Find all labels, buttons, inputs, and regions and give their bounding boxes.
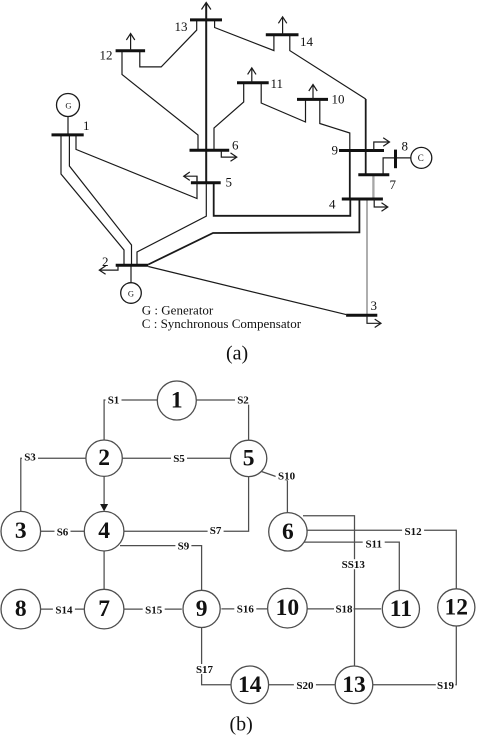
edge S5 (2-5) bbox=[122, 457, 230, 459]
bus 11 bbox=[237, 81, 269, 84]
load arrow bus 9 (right) bbox=[374, 138, 390, 151]
svg-text:4: 4 bbox=[329, 197, 336, 212]
edge S7 (4-5) bbox=[124, 477, 249, 532]
wire line 4-7 bbox=[372, 175, 374, 199]
svg-text:S5: S5 bbox=[173, 453, 185, 465]
svg-text:3: 3 bbox=[371, 298, 378, 313]
wire line 7-8 bbox=[383, 158, 411, 175]
bus 1 bbox=[52, 133, 84, 136]
edge S15 (7-9) bbox=[124, 608, 182, 610]
svg-text:S19: S19 bbox=[437, 680, 455, 692]
load arrows bbox=[99, 3, 389, 328]
wire line 6-13 and 5-6 vertical bbox=[205, 20, 207, 183]
svg-text:2: 2 bbox=[102, 254, 109, 269]
node 14 bbox=[231, 666, 269, 704]
edge S20 (14-13) bbox=[269, 684, 336, 686]
wire line 1-2 circuit A bbox=[61, 135, 124, 265]
svg-text:S16: S16 bbox=[237, 604, 255, 616]
edge S12 (6-12) bbox=[307, 530, 456, 589]
svg-text:14: 14 bbox=[238, 672, 262, 698]
wire line 2-3 bbox=[148, 267, 346, 315]
generator G2 stem bbox=[130, 265, 132, 283]
svg-text:7: 7 bbox=[98, 596, 110, 622]
bus 7 bbox=[358, 173, 389, 176]
edge S6 (3-4) bbox=[41, 530, 85, 532]
load arrow bus 13 (up) bbox=[202, 3, 211, 20]
svg-text:S15: S15 bbox=[145, 605, 163, 617]
svg-text:13: 13 bbox=[175, 19, 188, 34]
arrowhead of edge 2-4 bbox=[100, 504, 108, 511]
svg-text:S2: S2 bbox=[237, 395, 249, 407]
bus 12 bbox=[116, 49, 146, 52]
bus 10 bbox=[297, 98, 328, 101]
bus 4 bbox=[342, 198, 383, 201]
svg-text:4: 4 bbox=[98, 518, 110, 544]
svg-text:S1: S1 bbox=[108, 395, 120, 407]
svg-text:10: 10 bbox=[332, 92, 345, 107]
svg-text:1: 1 bbox=[171, 388, 183, 414]
compensator C circle bbox=[411, 147, 432, 168]
node 4 bbox=[84, 511, 124, 551]
node 2 bbox=[86, 440, 122, 476]
wire line 6-11 bbox=[214, 83, 244, 151]
node 11 bbox=[382, 590, 419, 627]
svg-text:7: 7 bbox=[390, 177, 397, 192]
svg-text:S11: S11 bbox=[365, 539, 382, 551]
load arrow bus 6 (right) bbox=[221, 150, 237, 161]
node 8 bbox=[1, 589, 41, 629]
svg-text:C : Synchronous Compensator: C : Synchronous Compensator bbox=[142, 316, 302, 331]
bus 5 bbox=[191, 181, 221, 184]
edge S3 (2-3) bbox=[21, 458, 86, 511]
wire line 9-14 bbox=[365, 99, 367, 151]
load arrow bus 2 (left) bbox=[99, 265, 118, 274]
svg-text:9: 9 bbox=[332, 143, 339, 158]
load arrow bus 4 (right) bbox=[374, 199, 388, 211]
wire line 9-10 bbox=[320, 99, 350, 150]
bus labels bbox=[83, 19, 408, 313]
edge S18 (10-11) bbox=[307, 608, 381, 610]
wire line 1-2 circuit B bbox=[69, 135, 131, 265]
svg-text:12: 12 bbox=[445, 594, 469, 620]
svg-text:S9: S9 bbox=[178, 540, 190, 552]
svg-text:8: 8 bbox=[15, 596, 27, 622]
generator G1 stem bbox=[67, 117, 69, 135]
load arrow bus 14 (up) bbox=[278, 17, 286, 35]
svg-text:8: 8 bbox=[402, 139, 409, 154]
wire line 12-13 bbox=[140, 20, 197, 67]
svg-text:S7: S7 bbox=[210, 525, 222, 537]
svg-text:S12: S12 bbox=[405, 526, 423, 538]
edge 4-7 bbox=[103, 551, 105, 589]
node 13 bbox=[335, 666, 373, 704]
svg-text:S20: S20 bbox=[296, 680, 314, 692]
bus 9 bbox=[339, 149, 384, 152]
svg-text:9: 9 bbox=[196, 596, 208, 622]
edge labels bbox=[22, 395, 455, 692]
node 9 bbox=[183, 590, 220, 627]
wire line 4-5 bbox=[214, 183, 351, 216]
svg-text:C: C bbox=[418, 153, 424, 163]
svg-text:3: 3 bbox=[15, 518, 27, 544]
svg-text:11: 11 bbox=[271, 76, 284, 91]
edge S19 (13-12) bbox=[373, 626, 457, 684]
svg-text:SS13: SS13 bbox=[342, 559, 366, 571]
bus 8 (vertical) bbox=[394, 150, 397, 169]
svg-text:1: 1 bbox=[83, 118, 90, 133]
edge S9 (4-9) bbox=[120, 546, 202, 590]
svg-text:G: G bbox=[128, 289, 134, 299]
svg-text:(b): (b) bbox=[230, 714, 253, 736]
svg-text:S14: S14 bbox=[55, 605, 73, 617]
svg-text:S6: S6 bbox=[57, 526, 69, 538]
wire line 3-4 bbox=[366, 199, 368, 315]
wire line 4-9 bbox=[349, 151, 351, 200]
svg-text:13: 13 bbox=[342, 672, 366, 698]
edge S14 (8-7) bbox=[41, 608, 85, 610]
node 10 bbox=[268, 588, 308, 628]
svg-text:6: 6 bbox=[232, 138, 239, 153]
node 3 bbox=[1, 511, 41, 551]
svg-text:S17: S17 bbox=[196, 664, 214, 676]
wire line 6-12 bbox=[122, 51, 198, 151]
edge S16 (9-10) bbox=[221, 608, 267, 610]
wire line 2-4 bbox=[148, 199, 359, 265]
node numbers bbox=[15, 388, 468, 698]
edge S17 (9-14) bbox=[202, 627, 231, 685]
bus 2 bbox=[116, 264, 149, 267]
load arrow bus 5 (left) bbox=[184, 172, 197, 183]
node 7 bbox=[84, 589, 124, 629]
node 12 bbox=[438, 589, 475, 626]
bus 13 bbox=[190, 18, 222, 21]
wire line 13-14 bbox=[215, 20, 274, 51]
svg-text:S10: S10 bbox=[278, 470, 296, 482]
generator G1 circle bbox=[57, 94, 80, 117]
svg-text:S3: S3 bbox=[24, 452, 36, 464]
svg-text:10: 10 bbox=[276, 595, 300, 621]
bus 6 bbox=[190, 149, 230, 152]
svg-text:5: 5 bbox=[243, 445, 255, 471]
bus 3 bbox=[346, 314, 377, 317]
svg-text:12: 12 bbox=[100, 48, 113, 63]
wire line 7-9 bbox=[365, 151, 367, 175]
svg-text:(a): (a) bbox=[226, 343, 248, 365]
svg-text:11: 11 bbox=[390, 596, 412, 622]
generator G2 circle bbox=[121, 283, 142, 304]
svg-text:14: 14 bbox=[300, 34, 314, 49]
svg-text:5: 5 bbox=[226, 175, 233, 190]
node 6 bbox=[269, 513, 307, 551]
wire line 10-11 bbox=[261, 83, 305, 122]
load arrow bus 11 (up) bbox=[248, 68, 256, 83]
edge S1 (1-2) bbox=[104, 400, 157, 440]
load arrow bus 3 (right) bbox=[367, 315, 381, 327]
load arrow bus 10 (up) bbox=[309, 85, 317, 100]
edge S13 (6-13) bbox=[303, 516, 355, 666]
bus 14 bbox=[266, 33, 299, 36]
wire line 1-5 bbox=[76, 135, 197, 199]
svg-text:S18: S18 bbox=[335, 604, 353, 616]
edge S2 (1-5) bbox=[196, 400, 248, 440]
edge S11 (6-11) bbox=[300, 542, 399, 590]
svg-text:2: 2 bbox=[98, 445, 110, 471]
load arrow bus 12 (up) bbox=[126, 34, 134, 51]
graph nodes bbox=[1, 381, 475, 704]
node 5 bbox=[230, 440, 266, 476]
svg-text:G: G bbox=[65, 101, 71, 111]
node 1 bbox=[157, 381, 196, 420]
bus bars bbox=[52, 20, 396, 315]
edge S4 arrow (2-4) bbox=[103, 476, 105, 508]
edge S10 (5-6) bbox=[262, 472, 288, 513]
wire line 2-5 bbox=[137, 183, 206, 265]
svg-text:6: 6 bbox=[282, 519, 294, 545]
